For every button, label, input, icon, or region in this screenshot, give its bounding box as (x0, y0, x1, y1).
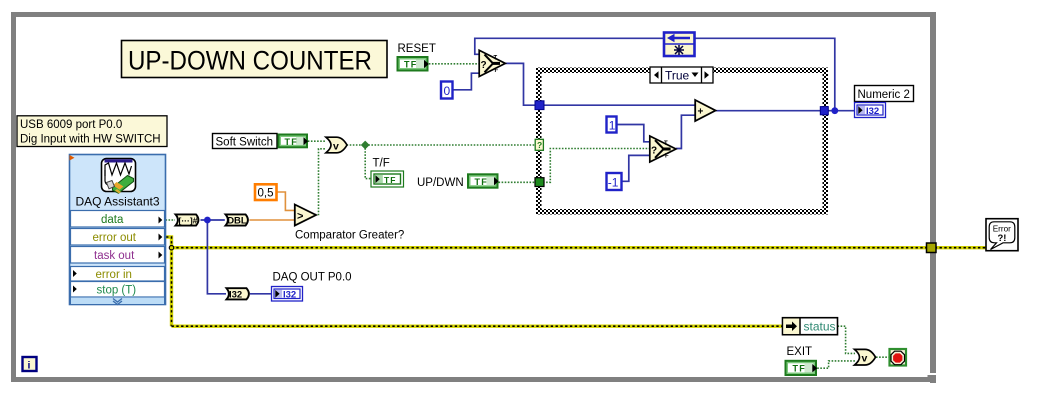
svg-text:T/F: T/F (373, 158, 390, 170)
wire: blue feedback loop top (475, 38, 835, 110)
wire: orange 0,5 constant to comparator (276, 192, 294, 210)
svg-text:status: status (804, 320, 836, 334)
Soft Switch label (213, 134, 278, 149)
wire: green OR output to case selector terminal (347, 144, 536, 146)
case right output tunnel (820, 107, 828, 115)
svg-text:UP/DWN: UP/DWN (417, 177, 464, 189)
svg-text:DAQ OUT P0.0: DAQ OUT P0.0 (273, 272, 352, 284)
row error out (71, 229, 165, 246)
DAQ Assistant express VI (70, 155, 166, 305)
svg-text:task out: task out (94, 250, 135, 262)
svg-text:T: T (494, 56, 498, 62)
window frame corner piece (928, 375, 937, 383)
svg-text:-1: -1 (608, 176, 619, 190)
svg-text:RESET: RESET (398, 43, 436, 55)
USB label (17, 116, 167, 147)
svg-text:True: True (665, 69, 690, 83)
svg-text:EXIT: EXIT (787, 346, 813, 358)
svg-text:USB 6009 port P0.0: USB 6009 port P0.0 (20, 119, 122, 131)
constant 1 (607, 117, 617, 133)
svg-text:T: T (664, 141, 668, 147)
case green boolean tunnel (535, 178, 544, 187)
TF control UP/DWN (467, 173, 499, 188)
error wire junction (169, 246, 173, 250)
svg-text:TF: TF (404, 60, 417, 70)
select node U-reset (479, 50, 505, 76)
case left input tunnel (535, 101, 544, 110)
wire: green branch down to T/F indicator (365, 145, 371, 179)
wire: error out down from DAQ (166, 237, 172, 248)
TF control RESET (397, 56, 429, 72)
constant 0,5 (255, 184, 277, 200)
svg-text:?!: ?! (998, 233, 1007, 244)
case selector label True (650, 67, 713, 83)
i icon bottom left (23, 357, 37, 372)
row data (71, 211, 165, 228)
svg-text:0: 0 (444, 84, 451, 98)
wire: blue 1 constant to select t (616, 125, 649, 142)
svg-text:Soft Switch: Soft Switch (216, 136, 274, 148)
junction dot numeric wire (831, 107, 838, 114)
OR gate top (326, 137, 347, 153)
OR gate bottom right (855, 349, 876, 365)
stop button (890, 349, 907, 366)
row error in (71, 267, 165, 282)
svg-text:DAQ Assistant3: DAQ Assistant3 (76, 195, 160, 209)
converter DBL node (226, 214, 248, 226)
wire: blue down to I32 converter (207, 220, 226, 294)
wire: green EXIT to OR2 (817, 361, 855, 368)
svg-text:i: i (28, 360, 31, 372)
svg-text:error out: error out (93, 232, 137, 244)
svg-text:TF: TF (793, 364, 806, 374)
wire: error bottom horizontal to status unbundle (172, 325, 784, 328)
wire: green UP/DWN to case tunnel (499, 181, 537, 183)
svg-text:Numeric 2: Numeric 2 (858, 89, 910, 101)
I32 indicator Numeric 2 (855, 103, 886, 118)
wire: blue from converter to DBL (201, 219, 225, 221)
error handler icon (986, 219, 1018, 251)
wire: error vertical down left (170, 248, 173, 327)
I32 indicator DAQ OUT (272, 287, 303, 302)
svg-text:?: ? (481, 60, 487, 71)
TF indicator T/F (371, 171, 404, 187)
wire: dynamic data from DAQ to converter (163, 219, 176, 221)
svg-text:v: v (333, 141, 339, 153)
title label UP-DOWN COUNTER (122, 41, 388, 78)
svg-text:F: F (665, 154, 669, 160)
comparator greater node (295, 205, 316, 226)
constant -1 (607, 173, 622, 190)
wire: green status to OR2 (838, 326, 856, 353)
converter I32 node (227, 288, 249, 300)
svg-text:?: ? (651, 146, 657, 157)
wire: blue right tunnel to Numeric 2 (827, 110, 856, 112)
wire: green comparator output up to OR gate (315, 149, 327, 215)
case structure border left (536, 68, 542, 215)
TF control EXIT (785, 360, 818, 376)
chevron bar (71, 297, 165, 305)
wire: blue -1 constant to select f (621, 155, 649, 181)
svg-text:Dig Input with HW SWITCH: Dig Input with HW SWITCH (20, 134, 161, 146)
wire: error main horizontal to error handler (172, 246, 987, 249)
case structure border right (823, 68, 829, 215)
olive tunnel square on frame (927, 243, 937, 253)
constant 0 (441, 82, 453, 99)
svg-text:F: F (495, 68, 499, 74)
svg-text:error in: error in (96, 269, 132, 281)
svg-text:I32: I32 (229, 289, 242, 300)
svg-text:+: + (698, 107, 704, 118)
wire: green OR2 output to stop button (876, 356, 890, 358)
window frame top bar (11, 12, 936, 17)
wire: blue I32 converter to DAQ OUT indicator (250, 293, 272, 295)
unbundle status node (783, 318, 838, 335)
wire: green soft switch TF to OR gate (308, 140, 327, 142)
wire: green RESET TF to select (429, 63, 479, 65)
svg-text:data: data (101, 214, 124, 226)
row stop (71, 282, 165, 298)
svg-text:0,5: 0,5 (258, 188, 274, 200)
svg-text:TF: TF (475, 177, 488, 187)
wire: blue inside case from tunnel to add node (543, 104, 695, 106)
case selector ? terminal (535, 139, 543, 150)
svg-text:v: v (862, 353, 868, 365)
window frame right bar (930, 12, 936, 373)
svg-text:Comparator Greater?: Comparator Greater? (295, 230, 404, 242)
TF control Soft Switch (278, 134, 309, 149)
svg-text:[···]#: [···]# (179, 215, 198, 225)
wire: blue 0 constant to select f input (453, 73, 480, 90)
wire: blue add output to right tunnel (715, 110, 823, 112)
svg-text:>: > (297, 211, 303, 223)
DAQ icon (102, 159, 136, 192)
converter dynamic data node (176, 214, 199, 225)
svg-text:TF: TF (285, 137, 298, 147)
svg-text:UP-DOWN COUNTER: UP-DOWN COUNTER (128, 46, 372, 76)
Numeric 2 label (855, 86, 914, 102)
svg-text:TF: TF (384, 175, 396, 185)
green wire junction diamond (361, 141, 370, 150)
junction dot data wire (204, 217, 211, 224)
svg-text:DBL: DBL (227, 216, 247, 227)
row task out (71, 247, 165, 264)
svg-text:I32: I32 (283, 290, 296, 301)
feedback node (664, 33, 695, 57)
add node (695, 100, 715, 121)
wire: blue select output into case left tunnel (504, 63, 537, 105)
case structure border bottom (536, 209, 828, 215)
window frame left bar (11, 12, 16, 382)
wire: blue select2 output up to add (676, 115, 695, 148)
svg-text:1: 1 (609, 119, 616, 133)
svg-text:stop (T): stop (T) (97, 284, 137, 296)
wire: green inside case tunnel to select2 s input (543, 149, 650, 183)
case structure border top (536, 68, 828, 74)
svg-text:?: ? (537, 140, 542, 150)
select node in case (650, 136, 676, 162)
wire: orange DBL to comparator (249, 219, 294, 221)
window frame bottom bar (11, 377, 930, 382)
svg-text:I32: I32 (866, 106, 879, 117)
